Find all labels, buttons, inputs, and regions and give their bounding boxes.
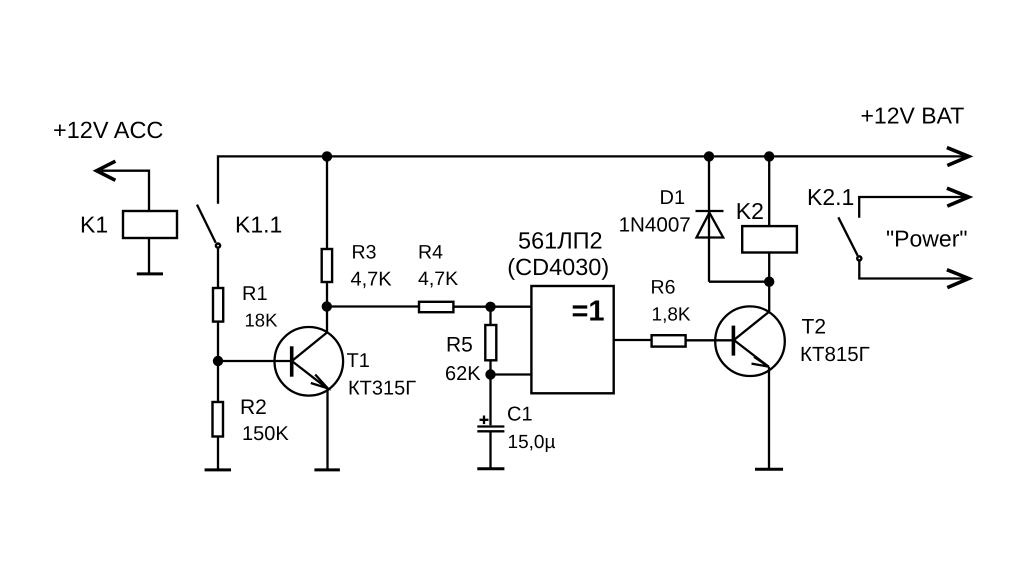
svg-text:4,7K: 4,7K [351, 269, 393, 291]
svg-text:R4: R4 [418, 242, 443, 264]
svg-text:C1: C1 [507, 404, 533, 426]
svg-text:D1: D1 [660, 187, 686, 209]
svg-text:R1: R1 [242, 283, 268, 305]
svg-text:T1: T1 [347, 350, 370, 372]
svg-text:+12V BAT: +12V BAT [861, 102, 965, 128]
svg-text:+12V ACC: +12V ACC [53, 117, 163, 143]
svg-text:K1.1: K1.1 [235, 211, 282, 237]
svg-text:1,8K: 1,8K [652, 305, 691, 326]
svg-text:КТ815Г: КТ815Г [800, 343, 870, 366]
svg-text:=1: =1 [572, 296, 605, 328]
svg-text:R2: R2 [240, 396, 267, 419]
svg-text:КТ315Г: КТ315Г [348, 378, 416, 400]
svg-text:R6: R6 [651, 277, 676, 299]
svg-text:K2.1: K2.1 [807, 184, 854, 210]
svg-text:18K: 18K [245, 310, 279, 331]
svg-text:T2: T2 [802, 316, 827, 339]
svg-text:(CD4030): (CD4030) [507, 254, 609, 280]
svg-text:1N4007: 1N4007 [619, 214, 691, 237]
svg-text:4,7K: 4,7K [418, 268, 458, 290]
svg-text:15,0µ: 15,0µ [508, 432, 556, 453]
svg-text:"Power": "Power" [886, 226, 968, 252]
svg-text:R5: R5 [446, 334, 473, 357]
svg-text:561ЛП2: 561ЛП2 [518, 227, 603, 253]
svg-text:150K: 150K [242, 423, 289, 445]
svg-text:K2: K2 [736, 198, 764, 224]
svg-text:R3: R3 [352, 242, 377, 264]
svg-text:62K: 62K [445, 363, 481, 385]
svg-text:K1: K1 [80, 212, 108, 238]
